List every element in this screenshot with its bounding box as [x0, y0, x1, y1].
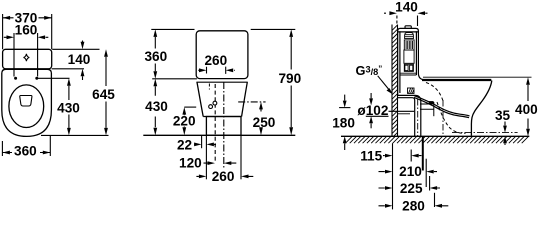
dim 140 (side) arrows — [384, 11, 428, 15]
svg-text:22: 22 — [177, 137, 193, 152]
fixing bolt (dark) — [429, 101, 434, 103]
dim 360 extension lines — [2, 135, 50, 156]
pipe center line horizontal (dash-dot) — [452, 132, 518, 134]
wall face ext line below floor — [392, 143, 394, 209]
dim 370 line + arrows — [3, 16, 52, 20]
dim 115 row — [383, 154, 422, 158]
svg-text:430: 430 — [57, 101, 80, 116]
ext line base-left below floor — [205, 135, 207, 179]
ext line bowl-edge below floor — [201, 135, 203, 148]
drain/water shape — [20, 96, 32, 107]
bowl underside curve (outer) — [414, 96, 470, 116]
hinge hole right — [35, 77, 38, 80]
svg-text:225: 225 — [400, 181, 423, 196]
dim 370 extension lines — [3, 14, 52, 49]
base step line — [203, 116, 241, 118]
outlet center vertical (dash-dot) — [442, 100, 444, 136]
svg-text:260: 260 — [204, 53, 227, 68]
svg-text:360: 360 — [14, 144, 37, 159]
flush valve mechanism: slotted cage — [404, 40, 414, 50]
svg-text:645: 645 — [92, 87, 115, 102]
hinge hole dash-dot line (right) — [238, 101, 265, 103]
dim 35 — [503, 122, 507, 146]
hidden drain pipe (dashed) — [214, 84, 216, 161]
dim 160 extension lines — [14, 33, 38, 77]
cistern top extension line (right) — [251, 28, 296, 30]
dim 140 top ref line (cistern top extended) — [52, 48, 99, 50]
svg-text:G3/8”: G3/8” — [356, 63, 383, 78]
bowl left side (front) — [197, 82, 203, 116]
inner bowl oval — [9, 85, 44, 128]
center line (dash-dot) — [223, 82, 225, 168]
G3/8 leader + arrowhead — [378, 76, 393, 95]
dim 400 line + arrows — [526, 77, 530, 136]
svg-text:790: 790 — [278, 71, 301, 86]
svg-text:180: 180 — [332, 115, 355, 130]
tank outlet gasket — [408, 88, 415, 93]
dim 160 line + arrows — [4, 35, 49, 39]
svg-text:260: 260 — [212, 169, 235, 184]
cistern (front) — [196, 31, 248, 79]
bottom ref line (bowl front extended) — [41, 134, 109, 136]
svg-text:140: 140 — [68, 52, 91, 67]
bowl front profile — [471, 81, 491, 136]
flush valve mechanism: valve seat — [404, 64, 413, 71]
dim o102 lower ref line — [366, 115, 389, 117]
dim 140 (side) ext lines — [396, 16, 398, 25]
fixing bracket lines — [420, 104, 434, 109]
tank interior bottom — [400, 73, 417, 75]
dim 225 row — [379, 186, 441, 190]
dim o102 lower arrow — [369, 116, 373, 128]
svg-text:360: 360 — [144, 49, 167, 64]
svg-text:400: 400 — [515, 102, 538, 117]
dim 430 (front) arrows — [153, 79, 157, 136]
flush valve mechanism: float chamber — [404, 50, 414, 63]
hidden trap curve lower (dashed) — [437, 102, 466, 133]
dim 22 arrows — [194, 143, 216, 147]
dim 360 line + arrows — [2, 151, 50, 155]
floor line (front view) — [143, 134, 295, 136]
svg-text:160: 160 — [15, 23, 38, 38]
dim 260 (top) arrows — [198, 68, 235, 72]
svg-text:250: 250 — [253, 115, 276, 130]
cistern (plan) — [3, 49, 52, 69]
dim 140 lower ref line (cistern bottom extended) — [52, 68, 84, 70]
dim 430 vertical line + arrows — [67, 78, 71, 135]
pedestal base (front) — [206, 117, 241, 136]
svg-text:115: 115 — [360, 149, 382, 164]
wall section band — [392, 25, 398, 138]
dim 180 lower arrow (below floor) — [343, 136, 347, 150]
seat/body outline (plan) — [2, 69, 52, 136]
leader from right hinge hole — [37, 77, 70, 79]
dim 250 arrows — [259, 102, 263, 135]
drain center line below floor (thick) — [422, 137, 424, 171]
hinge hole left — [14, 77, 17, 80]
dim 225 right tick — [429, 176, 431, 191]
supply pipe hint — [398, 113, 411, 115]
dim 645 vertical line + arrows — [104, 49, 108, 135]
floor line — [341, 135, 529, 137]
dim 220 arrows — [182, 107, 186, 135]
dim 280 right tick — [434, 193, 436, 207]
svg-text:220: 220 — [173, 113, 196, 128]
dim o102 upper arrow — [369, 93, 373, 105]
seat top line + 400 ext — [423, 76, 532, 78]
flush pipe center line (dash-dot) — [417, 99, 419, 136]
dim 115 right tick — [410, 150, 412, 162]
cistern section outline — [398, 28, 425, 95]
ext line base-right below floor — [240, 135, 242, 179]
svg-text:210: 210 — [399, 164, 422, 179]
svg-text:430: 430 — [145, 99, 168, 114]
dim 180 upper arrow — [343, 95, 347, 108]
flush button diamond — [24, 54, 30, 61]
dim 140 upper arrow — [81, 41, 85, 50]
bowl underside curve (inner) — [414, 97, 469, 117]
cistern top extension line (left) — [151, 28, 194, 30]
dim 120 arrows — [204, 161, 237, 165]
flush pipe elbow — [398, 95, 421, 136]
dim 140 lower arrow — [81, 69, 85, 80]
hidden pipe stub (dashed) — [208, 84, 210, 90]
dim 210 right tick — [425, 159, 427, 187]
dim 280 row — [379, 204, 449, 208]
tank joint line 2 — [196, 81, 247, 83]
svg-text:120: 120 — [179, 156, 202, 171]
dim 790 line + arrows — [289, 29, 293, 135]
seat line extension (left) — [152, 78, 197, 80]
hinge hole circles (front) — [209, 105, 213, 109]
svg-text:280: 280 — [402, 198, 425, 212]
o102 leader to pipe — [389, 110, 415, 112]
floor hatching — [345, 136, 528, 143]
flush valve mechanism: dome — [405, 33, 414, 39]
dim 210 row — [379, 170, 438, 174]
dim 360 (front) arrows — [153, 29, 157, 78]
fixing bracket vertical — [433, 102, 435, 116]
dim 260 (top) ext ticks — [207, 67, 226, 74]
dim o102 upper ref line — [339, 107, 350, 109]
svg-text:35: 35 — [495, 108, 511, 123]
dim 220 leader — [184, 106, 196, 108]
dim 260 (bottom) arrows — [196, 175, 253, 179]
bowl rim line (thick) — [422, 79, 491, 81]
bowl right side (front) — [242, 82, 248, 116]
svg-text:140: 140 — [395, 0, 418, 14]
flush button (side) — [405, 26, 411, 29]
hidden trap curve upper (dashed) — [426, 83, 443, 102]
